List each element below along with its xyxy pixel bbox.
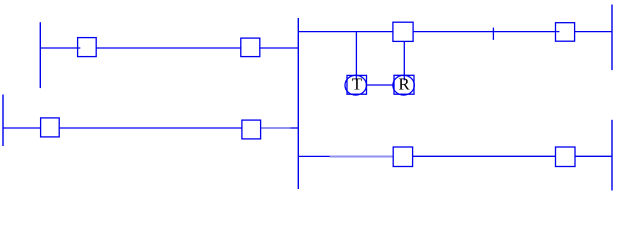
wire W2b (de-energized purple section) <box>261 127 291 129</box>
breaker SW5 <box>393 22 413 41</box>
bus B5 (bottom-right terminal bar) <box>611 120 613 191</box>
wire W3 (top-right feeder, center bus to right bus) <box>298 31 612 33</box>
breaker SW3 <box>41 118 60 137</box>
svg-text:T: T <box>352 75 363 94</box>
transmitter T (square) <box>347 75 367 94</box>
breaker SW8 <box>556 147 576 167</box>
breaker SW1 <box>78 38 97 57</box>
breaker SW6 <box>556 23 575 42</box>
wire W7c (SW7 to SW8 to right bus) <box>413 155 612 157</box>
bus B3 (center vertical bus) <box>297 18 299 189</box>
wire stub into T circle <box>355 75 357 80</box>
wire stub into R circle <box>403 75 405 80</box>
wire W2 (bottom-left feeder, bus B2 toward center bus) <box>3 127 261 129</box>
bus B4 (top-right terminal bar) <box>611 5 613 71</box>
receiver R (square) <box>394 75 414 94</box>
wire W4 (drop from W3 to transmitter T) <box>355 32 357 76</box>
wire stub inside SW1 <box>78 47 80 49</box>
wire W1 (top-left feeder, bus B1 to center bus) <box>40 47 298 49</box>
receiver R (circle) <box>393 75 414 95</box>
transmitter T (circle) <box>345 75 366 95</box>
wire W5 (drop from SW5 bottom to receiver R) <box>403 41 405 76</box>
disconnect tick M1 <box>492 28 494 40</box>
wire W2c (to center bus) <box>290 127 298 129</box>
wire stub inside SW6 <box>556 31 559 33</box>
svg-text:R: R <box>398 75 410 94</box>
bus B2 (left edge terminal bar) <box>2 95 4 147</box>
bus B1 (top-left terminal bar) <box>39 22 41 88</box>
wire W6 (T to R connector) <box>367 84 395 86</box>
wire W7 (bottom-right feeder from center bus) <box>298 155 330 157</box>
wire W7b (de-energized purple section) <box>330 156 393 158</box>
breaker SW4 <box>242 120 261 139</box>
breaker SW2 <box>241 38 260 57</box>
breaker SW7 <box>393 147 412 167</box>
